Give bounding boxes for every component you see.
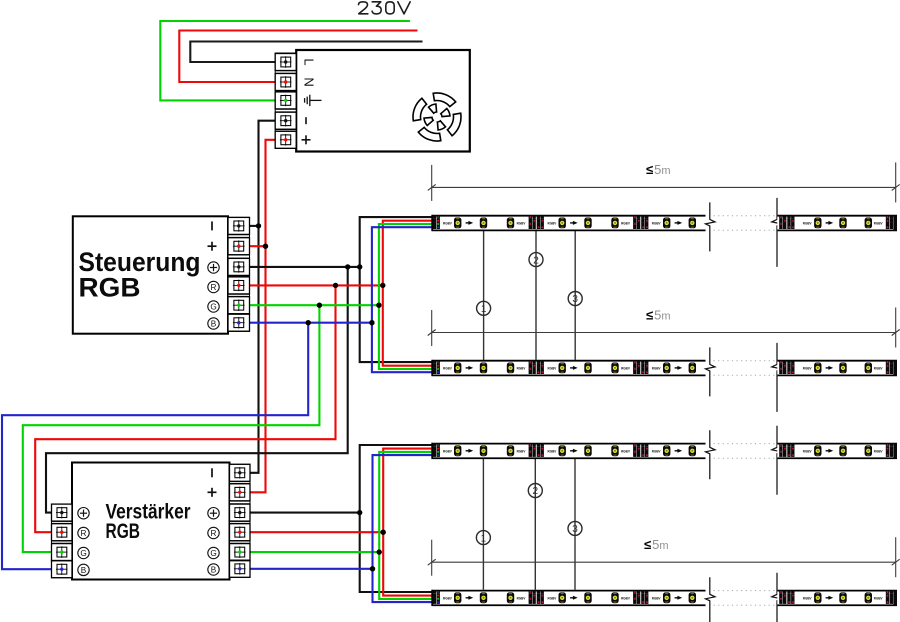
Verstaerker right terminal G [230,544,251,561]
LED strip 4 segment A [432,590,706,606]
wire strip link 1 upper [483,231,485,360]
wire Verstaerker R out red [250,531,383,533]
node 1 circled [476,531,490,545]
svg-text:L: L [302,58,317,65]
wire Verstaerker B out blue [250,568,373,570]
Verstaerker left terminal R in [52,524,73,541]
Verstaerker left terminal G in [52,544,73,561]
svg-text:RGB: RGB [79,273,141,303]
wire strip link 1 lower [482,459,484,590]
PSU pin label minus [305,117,307,124]
label 230V [359,2,411,14]
PSU terminal minus [275,112,296,129]
svg-text:≤5m: ≤5m [644,537,669,552]
PSU pin label plus [302,135,311,144]
wire strip link 2 upper [535,231,537,360]
svg-text:B: B [211,565,217,574]
node 3 circled [568,521,582,535]
LED strip 1 segment A [432,215,706,231]
Verstaerker left pin label R circle [78,527,89,538]
Verstaerker right pin label minus [211,468,213,477]
Steuerung pin label +V circle [208,262,219,273]
wire Steuerung R out red [250,284,383,286]
svg-text:3: 3 [572,294,578,305]
Steuerung terminal B [228,314,250,331]
wire Verstaerker +V out black [250,512,360,514]
svg-text:RGB: RGB [106,520,141,543]
wire strip link 3 upper [574,231,576,360]
LED strip 4 dotted continuation [714,591,776,606]
LED strip 1 break mark right [772,198,782,267]
Verstaerker left terminal B in [52,561,73,578]
PSU terminal strip outline [275,53,296,149]
Steuerung terminal plus [228,238,250,255]
wire strip link 2 lower [534,459,536,590]
PSU terminal PE [275,92,296,109]
junction dots Steuerung nets [256,223,261,228]
LED strip 3 segment A [432,443,706,459]
svg-text:2: 2 [533,255,539,266]
Verstaerker right terminal minus [230,464,251,481]
Verstaerker right pin label +V circle [208,508,219,519]
node 3 circled [568,292,582,306]
wire mains N red [179,31,417,83]
Steuerung terminal R [228,277,250,294]
Steuerung pin label G circle [208,301,219,312]
wire mains PE green [160,21,410,100]
amplifier Verstaerker RGB box [72,463,230,580]
svg-text:B: B [211,319,217,328]
PSU terminal L [275,54,296,71]
Verstaerker left pin label G circle [78,547,89,558]
PSU fan symbol [413,93,461,141]
PSU terminal plus [275,131,296,148]
Verstaerker left pin label +V circle [78,508,89,519]
svg-text:N: N [302,77,317,86]
wire Steuerung G out green [250,304,379,306]
svg-text:2: 2 [533,486,539,497]
Steuerung pin label minus [211,221,213,230]
LED strip 2 segment B [777,360,897,376]
LED strip 4 break mark right [772,573,782,622]
node 2 circled [528,484,542,498]
Verstaerker right terminal +V [230,504,251,521]
svg-text:1: 1 [481,304,487,315]
svg-text:R: R [211,283,217,292]
Verstaerker right pin label B circle [208,564,219,575]
junction dots Verstaerker nets [357,510,362,515]
svg-text:R: R [81,529,87,538]
Verstaerker left pin label B circle [78,564,89,575]
wire Steuerung +V out black [250,266,360,268]
PSU pin label earth ground symbol [305,95,322,106]
dimension line 3 ≤5m [428,537,900,577]
LED strip 3 segment B [777,443,897,459]
node 1 circled [477,301,491,315]
svg-text:R: R [211,529,217,538]
svg-text:B: B [81,566,87,575]
svg-text:≤5m: ≤5m [646,307,671,322]
wire mains L black [190,42,422,63]
LED strip 4 segment B [777,590,897,606]
svg-text:1: 1 [481,533,487,544]
PSU terminal N [275,74,296,91]
Verstaerker right pin label G circle [208,547,219,558]
LED strip 3 break mark left [706,430,716,479]
Steuerung terminal minus [228,217,250,234]
svg-text:G: G [210,302,216,311]
wire V+ red: PSU plus to Steuerung plus and Verstaerker plus [250,140,275,493]
LED strip 2 break mark right [772,343,782,412]
Steuerung terminal strip outline [228,217,250,331]
controller Steuerung RGB box [73,216,228,333]
LED strip 4 break mark left [706,577,716,622]
wire Steuerung B out blue [250,322,372,324]
wire strip link 3 lower [574,459,576,590]
dimension line 2 ≤5m [428,308,900,348]
Verstaerker right pin label R circle [208,527,219,538]
svg-text:3: 3 [572,524,578,535]
Verstaerker right terminal B [230,560,251,577]
Steuerung terminal +V [228,258,250,275]
svg-text:G: G [210,549,216,558]
Verstaerker right terminal strip outline [230,464,251,577]
LED strip 2 dotted continuation [714,361,776,376]
LED strip 2 segment A [432,360,706,376]
Verstaerker left terminal strip outline [52,504,73,578]
Steuerung pin label plus [208,242,217,251]
LED strip 3 dotted continuation [714,444,776,459]
Verstaerker right terminal plus [230,484,251,501]
LED strip 2 break mark left [706,347,716,396]
LED strip 1 dotted continuation [714,216,776,231]
wire Verstaerker G out green [250,551,379,553]
LED strip 1 break mark left [706,202,716,251]
LED strip 3 break mark right [772,426,782,495]
Verstaerker right terminal R [230,524,251,541]
LED strip 1 segment B [777,215,897,231]
dimension line 1 ≤5m [428,162,900,202]
Steuerung pin label B circle [208,318,219,329]
node 2 circled [529,253,543,267]
svg-text:≤5m: ≤5m [646,162,671,177]
Steuerung terminal G [228,297,250,314]
Verstaerker right pin label plus [208,488,217,497]
Steuerung pin label R circle [208,281,219,292]
wire V- black: PSU minus to Steuerung minus and Verstaerker minus [250,121,275,473]
svg-text:G: G [80,549,86,558]
power supply unit PSU box [296,50,470,152]
Verstaerker left terminal +V in [52,504,73,521]
